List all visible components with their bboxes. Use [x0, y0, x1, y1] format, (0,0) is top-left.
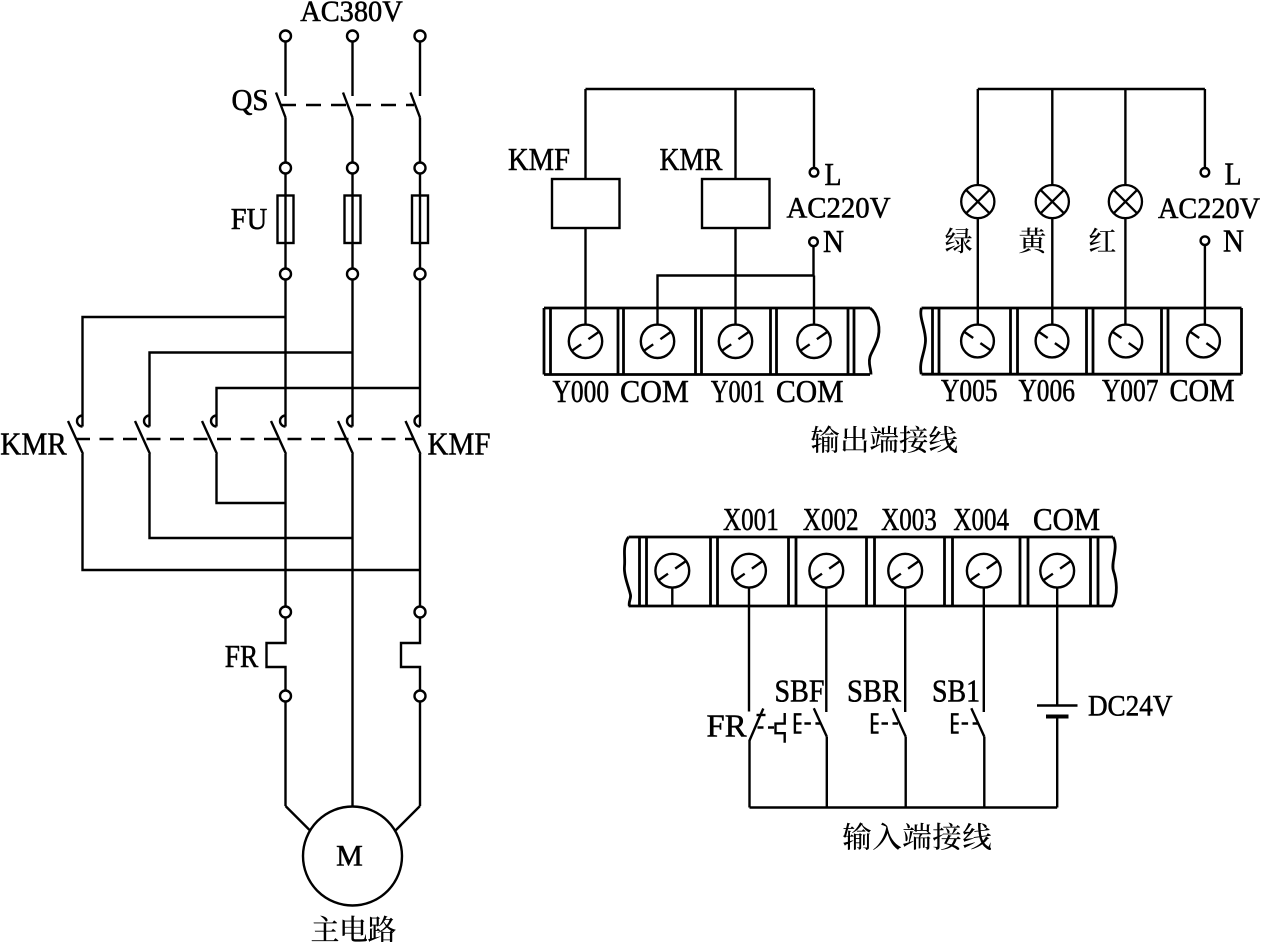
terminal COM screw: [1040, 554, 1074, 588]
wire output bus L (lamp group): [978, 88, 1205, 90]
node FR top: [280, 607, 291, 618]
wire: [284, 42, 286, 97]
contactor KMR pole 1 blade: [68, 421, 83, 454]
svg-text:M: M: [336, 840, 363, 873]
wire N branch down to COM (right): [813, 276, 815, 325]
switch QS pole 2 blade: [343, 93, 353, 118]
wire to L terminal: [813, 89, 815, 168]
wire slant into motor right: [395, 806, 420, 831]
wire SB1 top: [983, 588, 985, 712]
fuse FU element 2: [345, 196, 361, 244]
svg-text:KMF: KMF: [508, 141, 570, 177]
battery DC24V negative plate: [1046, 715, 1069, 719]
FR linkage dashed: [758, 726, 775, 728]
svg-text:Y000: Y000: [553, 373, 610, 409]
wire lamp HL2 yellow bottom: [1051, 218, 1053, 324]
node FR bottom: [280, 691, 291, 702]
terminal COM screw: [797, 325, 830, 358]
terminal strip 2 (Y005..COM) body: [921, 308, 1242, 374]
wire: [284, 118, 286, 163]
pushbutton SB1 linkage dashed: [962, 722, 979, 724]
svg-text:SBR: SBR: [847, 673, 902, 709]
node fuse-bottom 2: [347, 269, 358, 280]
wire output bus L (left group): [586, 88, 815, 90]
fuse FU element 3: [412, 196, 428, 244]
terminal Y007 screw: [1109, 325, 1142, 358]
terminal X002 screw: [809, 554, 843, 588]
battery DC24V positive plate: [1037, 704, 1078, 706]
pushbutton SBR blade: [893, 708, 906, 736]
pushbutton SBR linkage dashed: [882, 722, 899, 724]
svg-text:SBF: SBF: [775, 673, 825, 709]
wire X001 to bus: [748, 740, 750, 808]
power terminal phase 2: [347, 31, 358, 42]
svg-text:AC380V: AC380V: [300, 0, 403, 28]
wire SBF to bus: [826, 737, 828, 808]
terminal COM screw: [1187, 325, 1220, 358]
wire KMR pole2 bottom crossover to phase2: [150, 454, 353, 538]
wire: [351, 42, 353, 97]
terminal Y000 screw: [569, 325, 602, 358]
terminal Y006 screw: [1036, 325, 1069, 358]
label 绿: [945, 228, 972, 254]
svg-text:COM: COM: [776, 373, 844, 409]
svg-text:KMF: KMF: [428, 426, 491, 462]
svg-text:KMR: KMR: [0, 426, 67, 462]
svg-text:Y001: Y001: [711, 373, 765, 409]
svg-text:FU: FU: [231, 201, 268, 236]
svg-text:COM: COM: [620, 373, 689, 409]
svg-text:FR: FR: [225, 638, 259, 674]
terminal L (AC220V live): [810, 168, 819, 177]
pushbutton SB1 actuator E: [952, 714, 959, 732]
contactor KMR pole 1 fixed contact arc: [77, 416, 83, 427]
wire: [284, 702, 286, 807]
svg-text:L: L: [1225, 156, 1242, 192]
thermal relay FR heater element: [267, 618, 286, 691]
wire battery to bus: [1056, 719, 1058, 808]
contactor KMR pole 3 blade: [202, 421, 217, 454]
contactor KMR pole 2 blade: [135, 421, 150, 454]
caption 输出端接线 (output terminal wiring): [811, 425, 839, 453]
svg-text:N: N: [823, 223, 844, 259]
lamp HL2 yellow: [1036, 185, 1069, 218]
svg-text:QS: QS: [232, 82, 269, 117]
wire lamp HL2 yellow top: [1051, 89, 1053, 185]
wire lamp HL3 red top: [1124, 89, 1126, 185]
lamp HL3 red: [1109, 185, 1142, 218]
wire crossover phase1 to KMR pole1: [83, 317, 286, 427]
terminal X004 screw: [967, 554, 1001, 588]
node fuse-top 1: [280, 163, 291, 174]
wire slant into motor left: [286, 806, 311, 831]
pushbutton SB1 blade: [971, 708, 984, 736]
svg-text:COM: COM: [1033, 501, 1100, 537]
wire lamp HL1 green top: [977, 89, 979, 185]
wire phase2 down to KMF pole5: [351, 280, 353, 427]
contactor coil KMR: [702, 179, 770, 228]
wire phase1 down to KMF pole4: [284, 280, 286, 427]
wire KMF coil top: [584, 89, 586, 179]
wire SBR to bus: [905, 737, 907, 808]
wire: [419, 118, 421, 163]
terminal N (AC220V neutral): [809, 238, 818, 247]
node FR bottom: [415, 691, 426, 702]
contactor KMF pole 5 fixed contact arc: [347, 416, 353, 427]
wire stub spare terminal: [671, 588, 673, 606]
wire KMR pole1 bottom crossover to phase3: [83, 454, 421, 570]
wire lamp HL1 green bottom: [977, 218, 979, 324]
power terminal phase 1: [280, 31, 291, 42]
fuse FU element 1: [278, 196, 294, 244]
node fuse-top 3: [415, 163, 426, 174]
thermal relay FR element (input): [776, 713, 785, 743]
pushbutton SBF actuator E: [795, 714, 802, 732]
node fuse-bottom 1: [280, 269, 291, 280]
wire KMR coil to Y001: [734, 228, 736, 325]
caption 输入端接线 (input terminal wiring): [843, 822, 871, 850]
lamp HL1 green: [961, 185, 994, 218]
contactor KMR pole 2 fixed contact arc: [144, 416, 149, 427]
pushbutton SBF blade: [814, 708, 827, 736]
terminal X003 screw: [888, 554, 922, 588]
wire crossover phase3 to KMR pole3: [217, 388, 421, 427]
svg-text:N: N: [1223, 223, 1244, 259]
wire: [419, 174, 421, 269]
wire COM down to battery: [1056, 588, 1058, 705]
wire phase3 down to KMF pole6: [419, 280, 421, 427]
svg-text:DC24V: DC24V: [1088, 690, 1173, 723]
svg-text:COM: COM: [1170, 372, 1235, 408]
contactor KMF pole 4 blade: [271, 421, 286, 454]
power terminal phase 3: [415, 31, 426, 42]
contactor KMF pole 6 fixed contact arc: [415, 416, 420, 427]
svg-text:Y005: Y005: [941, 372, 998, 408]
contactor KMF pole 4 fixed contact arc: [280, 416, 286, 427]
contactor KMR pole 3 fixed contact arc: [211, 416, 217, 427]
switch QS pole 3 blade: [411, 93, 421, 118]
terminal Y001 screw: [719, 325, 752, 358]
svg-text:SB1: SB1: [932, 673, 980, 709]
contactor KMF pole 5 blade: [338, 421, 353, 454]
svg-text:AC220V: AC220V: [1158, 192, 1260, 225]
wire N to COM terminals: [658, 246, 814, 325]
contactor coil KMF: [552, 179, 620, 228]
thermal relay FR NC contact blade: [750, 709, 764, 741]
wire KMR pole3 bottom crossover to phase1: [217, 454, 286, 503]
terminal strip 1 (Y000..COM) body: [544, 308, 879, 375]
thermal relay FR heater element: [401, 618, 420, 691]
terminal X001 screw: [732, 554, 766, 588]
label 黄: [1019, 227, 1045, 253]
wire phase3 KMF pole6 down to FR: [419, 454, 421, 607]
terminal L (lamp group): [1201, 168, 1210, 177]
svg-text:X004: X004: [953, 501, 1009, 537]
thermal relay FR NC contact tick: [757, 714, 766, 716]
svg-text:Y006: Y006: [1018, 372, 1075, 408]
wire crossover phase2 to KMR pole2: [150, 353, 353, 427]
wire: [419, 42, 421, 97]
pushbutton SBF linkage dashed: [804, 722, 821, 724]
pushbutton SBR actuator E: [872, 714, 879, 732]
wire KMR coil top: [734, 89, 736, 179]
terminal (spare) screw: [655, 554, 689, 588]
wire: [419, 702, 421, 807]
node fuse-bottom 3: [415, 269, 426, 280]
switch QS pole 1 blade: [276, 93, 286, 118]
terminal N (lamp group): [1201, 236, 1210, 245]
wire: [351, 118, 353, 163]
wire phase1 KMF pole4 down to FR: [284, 454, 286, 607]
svg-text:X002: X002: [803, 501, 859, 537]
svg-text:FR: FR: [707, 708, 748, 744]
wire to L terminal (lamp group): [1204, 89, 1206, 168]
contactor KMF pole 6 blade: [406, 421, 421, 454]
motor M circle: [303, 807, 402, 906]
terminal Y005 screw: [961, 325, 994, 358]
svg-text:X001: X001: [723, 501, 779, 537]
svg-text:L: L: [825, 156, 842, 192]
svg-text:KMR: KMR: [660, 141, 724, 177]
terminal COM screw: [641, 325, 674, 358]
node FR top: [415, 607, 426, 618]
wire input common bus: [750, 806, 1058, 808]
svg-text:Y007: Y007: [1102, 372, 1159, 408]
wire SBR top: [904, 588, 906, 712]
wire SBF top: [825, 588, 827, 712]
wire SB1 to bus: [983, 737, 985, 808]
wire: [284, 174, 286, 269]
switch QS linkage dashed: [281, 104, 414, 106]
wire: [351, 174, 353, 269]
wire lamp HL3 red bottom: [1124, 218, 1126, 324]
wire N to COM (lamp group): [1204, 245, 1206, 325]
wire phase2 KMF pole5 down to motor: [351, 454, 353, 807]
contactor KMR-KMF linkage dashed: [76, 438, 414, 440]
caption 主电路 (main circuit): [312, 916, 339, 941]
node fuse-top 2: [347, 163, 358, 174]
wire X001 down: [748, 588, 750, 712]
terminal strip 3 (inputs) body: [624, 537, 1116, 606]
label 红: [1089, 228, 1115, 252]
svg-text:AC220V: AC220V: [787, 192, 891, 225]
wire KMF coil to Y000: [584, 228, 586, 325]
svg-text:X003: X003: [881, 501, 937, 537]
